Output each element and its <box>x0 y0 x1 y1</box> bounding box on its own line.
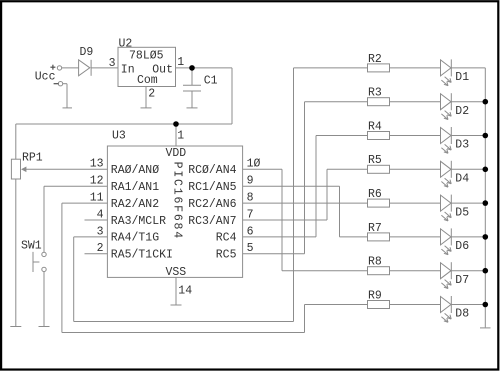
svg-text:1Ø: 1Ø <box>247 158 261 171</box>
svg-text:SW1: SW1 <box>21 239 42 252</box>
svg-text:1: 1 <box>177 56 184 69</box>
svg-text:RA5/T1CKI: RA5/T1CKI <box>111 249 173 262</box>
svg-text:D7: D7 <box>455 274 469 287</box>
svg-text:R3: R3 <box>368 87 382 100</box>
svg-text:RC2/AN6: RC2/AN6 <box>188 198 236 211</box>
svg-text:RCØ/AN4: RCØ/AN4 <box>188 164 236 177</box>
svg-text:RA2/AN2: RA2/AN2 <box>111 198 159 211</box>
svg-text:D4: D4 <box>455 173 469 186</box>
svg-text:VDD: VDD <box>165 147 186 160</box>
svg-text:7: 7 <box>247 208 254 221</box>
svg-text:1: 1 <box>177 129 184 142</box>
svg-text:RC1/AN5: RC1/AN5 <box>188 181 236 194</box>
svg-text:D5: D5 <box>455 206 469 219</box>
svg-text:R7: R7 <box>368 222 382 235</box>
svg-text:RC5: RC5 <box>216 249 237 262</box>
svg-text:11: 11 <box>90 192 104 205</box>
svg-text:VSS: VSS <box>165 266 186 279</box>
svg-text:R5: R5 <box>368 154 382 167</box>
svg-text:5: 5 <box>247 242 254 255</box>
svg-text:3: 3 <box>97 225 104 238</box>
svg-text:3: 3 <box>109 57 116 70</box>
svg-text:RAØ/ANØ: RAØ/ANØ <box>111 164 159 177</box>
svg-text:RA4/T1G: RA4/T1G <box>111 232 159 245</box>
svg-text:Com: Com <box>137 74 158 87</box>
svg-text:2: 2 <box>97 242 104 255</box>
svg-text:D2: D2 <box>455 105 469 118</box>
svg-text:R6: R6 <box>368 188 382 201</box>
svg-text:R2: R2 <box>368 53 382 66</box>
svg-text:RA1/AN1: RA1/AN1 <box>111 181 159 194</box>
svg-text:RC3/AN7: RC3/AN7 <box>188 215 236 228</box>
svg-text:R4: R4 <box>368 120 382 133</box>
svg-text:PIC16F684: PIC16F684 <box>170 162 183 240</box>
svg-text:D9: D9 <box>80 46 94 59</box>
svg-text:12: 12 <box>90 175 104 188</box>
svg-text:Ucc: Ucc <box>35 71 56 84</box>
svg-text:4: 4 <box>97 208 104 221</box>
svg-text:R9: R9 <box>368 289 382 302</box>
svg-text:D3: D3 <box>455 139 469 152</box>
svg-text:C1: C1 <box>204 74 218 87</box>
svg-text:RC4: RC4 <box>216 232 237 245</box>
svg-text:D1: D1 <box>455 71 469 84</box>
svg-text:8: 8 <box>247 192 254 205</box>
svg-text:R8: R8 <box>368 256 382 269</box>
svg-text:RA3/MCLR: RA3/MCLR <box>111 215 166 228</box>
svg-text:D6: D6 <box>455 240 469 253</box>
svg-text:U3: U3 <box>112 129 126 142</box>
svg-text:D8: D8 <box>455 308 469 321</box>
svg-text:In: In <box>121 64 135 77</box>
svg-text:13: 13 <box>90 158 104 171</box>
svg-text:U2: U2 <box>119 37 133 50</box>
svg-text:78LØ5: 78LØ5 <box>129 50 164 63</box>
svg-text:2: 2 <box>148 88 155 101</box>
svg-text:RP1: RP1 <box>22 152 43 165</box>
svg-text:6: 6 <box>247 225 254 238</box>
svg-text:14: 14 <box>178 284 192 297</box>
svg-text:9: 9 <box>247 175 254 188</box>
